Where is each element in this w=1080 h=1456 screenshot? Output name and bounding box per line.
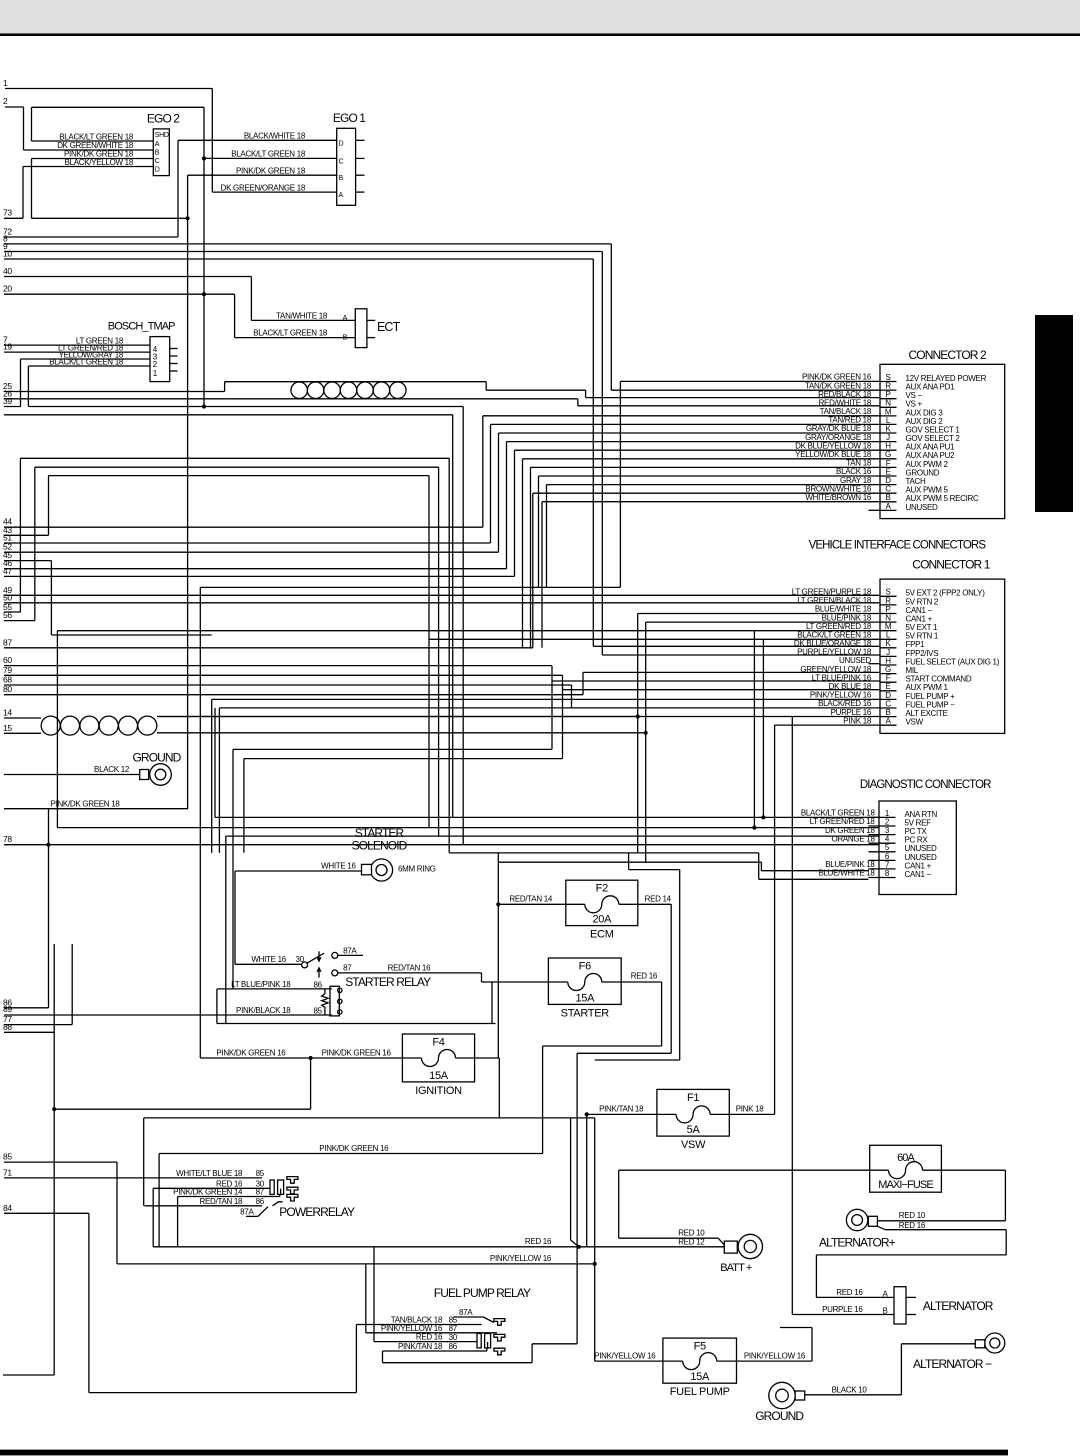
connector 2 row C AUX PWM 5 xyxy=(880,492,897,494)
wire 80 xyxy=(4,694,583,696)
connector 2 row S 12V RELAYED POWER xyxy=(880,381,897,383)
wire 44 xyxy=(4,526,483,528)
svg-text:D: D xyxy=(155,167,160,174)
EGO1 right stubs xyxy=(356,139,365,141)
svg-text:BATT +: BATT + xyxy=(720,1262,752,1274)
wire PINK/DK GREEN 16 to F4 xyxy=(200,1057,402,1059)
wire 50 / connector1 R row LT GREEN/BLACK 18 xyxy=(4,602,880,604)
wire 14 twisted pair top CAN xyxy=(4,717,41,719)
svg-text:RED 16: RED 16 xyxy=(416,1333,443,1342)
svg-text:TAN/WHITE 18: TAN/WHITE 18 xyxy=(276,311,328,320)
svg-text:A: A xyxy=(339,192,344,199)
svg-text:PINK/TAN 18: PINK/TAN 18 xyxy=(398,1342,443,1351)
wire R row TAN/DK GREEN 18 from wire 8 xyxy=(611,389,880,391)
TMAP right stubs xyxy=(170,348,178,350)
svg-text:PINK/DK GREEN 14: PINK/DK GREEN 14 xyxy=(173,1188,243,1197)
wire 7 LT GREEN 18 to TMAP 4 xyxy=(4,344,150,346)
svg-text:87A: 87A xyxy=(459,1308,473,1317)
svg-text:C: C xyxy=(339,159,344,166)
wire 43 xyxy=(4,534,49,536)
svg-text:73: 73 xyxy=(3,208,12,218)
svg-text:84: 84 xyxy=(3,1203,12,1213)
wire AUX ANA PU2 row G riser xyxy=(522,459,524,648)
connector 2 row G AUX ANA PU2 xyxy=(880,458,897,460)
starter relay enclosure return xyxy=(217,1023,496,1025)
svg-text:CAN1 −: CAN1 − xyxy=(905,870,932,879)
fuel relay 87A link xyxy=(483,1317,494,1323)
svg-text:IGNITION: IGNITION xyxy=(415,1085,462,1097)
svg-text:VEHICLE INTERFACE CONNECTORS: VEHICLE INTERFACE CONNECTORS xyxy=(809,540,987,552)
wire connector1 F row LT BLUE/PINK 16 start command xyxy=(552,680,880,682)
connector 1 box xyxy=(792,579,1005,733)
fuse F5 15A FUEL PUMP xyxy=(663,1338,737,1398)
wire 9 xyxy=(4,251,602,253)
wire 12V relayed power PINK/DK GREEN 16 xyxy=(620,380,880,382)
connector 1 row F START COMMAND xyxy=(880,681,897,683)
wire 89 PINK/BLACK 18 starter relay coil 85 xyxy=(4,1014,332,1016)
connector 2 row K GOV SELECT 1 xyxy=(880,432,897,434)
svg-text:RED 10: RED 10 xyxy=(678,1229,705,1238)
svg-text:88: 88 xyxy=(3,1022,12,1032)
wire TAN/WHITE 18 to ECT A xyxy=(251,319,355,321)
connector 1 row R 5V RTN 2 xyxy=(880,604,897,606)
svg-text:60A: 60A xyxy=(897,1152,915,1164)
wire 5V REF riser to diagnostic xyxy=(753,631,755,828)
svg-text:30: 30 xyxy=(449,1333,458,1342)
svg-text:VSW: VSW xyxy=(906,718,924,727)
svg-text:86: 86 xyxy=(256,1197,265,1206)
svg-text:RED 14: RED 14 xyxy=(645,895,672,904)
ring BATT+ xyxy=(724,1234,762,1258)
power relay 87A stub xyxy=(246,1215,258,1217)
svg-text:SOLENOID: SOLENOID xyxy=(352,839,408,853)
svg-text:PINK/DK GREEN 16: PINK/DK GREEN 16 xyxy=(322,1049,392,1058)
svg-text:DK GREEN/ORANGE 18: DK GREEN/ORANGE 18 xyxy=(221,183,306,192)
wire RED 16 power relay 30 xyxy=(153,1187,262,1189)
wire WHITE 16 to starter solenoid xyxy=(235,870,362,872)
wire 2 xyxy=(5,106,24,108)
svg-text:F6: F6 xyxy=(579,961,591,973)
wire PINK/DK GREEN 14 power relay 87 xyxy=(178,1196,262,1198)
svg-text:RED 16: RED 16 xyxy=(836,1288,863,1297)
svg-text:PINK/DK GREEN 18: PINK/DK GREEN 18 xyxy=(51,799,121,808)
svg-text:15: 15 xyxy=(3,723,12,733)
svg-text:LT BLUE/PINK 18: LT BLUE/PINK 18 xyxy=(231,980,291,989)
connector 2 row N VS + xyxy=(880,406,897,408)
svg-text:MAXI−FUSE: MAXI−FUSE xyxy=(878,1179,933,1191)
diagnostic row 1 ANA RTN xyxy=(868,816,895,818)
diagnostic connector box xyxy=(801,801,956,895)
svg-text:PINK/YELLOW 16: PINK/YELLOW 16 xyxy=(381,1324,443,1333)
svg-text:87: 87 xyxy=(256,1188,265,1197)
svg-text:BLACK 12: BLACK 12 xyxy=(94,765,130,774)
svg-text:POWERRELAY: POWERRELAY xyxy=(279,1205,355,1219)
wire EGO2 pin C PINK/DK GREEN 18 xyxy=(32,158,154,160)
svg-text:A: A xyxy=(343,313,348,322)
svg-text:F4: F4 xyxy=(432,1037,444,1049)
fuel pump relay contacts glyph xyxy=(471,1319,505,1355)
twisted pair circles CAN xyxy=(41,716,60,735)
wire RED 16 to BATT+ xyxy=(153,1246,724,1248)
starter relay coil xyxy=(330,986,339,1016)
svg-text:F2: F2 xyxy=(596,883,608,895)
connector 2 row B AUX PWM 5 RECIRC xyxy=(880,501,897,503)
wire GROUND row E riser xyxy=(538,476,540,587)
wire diag row2 LT GREEN/RED 18 5V REF xyxy=(57,827,879,829)
connector 2 box xyxy=(795,364,1005,518)
diagnostic row 6 UNUSED xyxy=(868,859,895,861)
svg-text:1: 1 xyxy=(3,78,8,88)
twisted pair circles EGO xyxy=(291,382,308,399)
svg-text:PINK/YELLOW 16: PINK/YELLOW 16 xyxy=(594,1351,656,1360)
wire run to diag via x449 xyxy=(20,457,449,459)
wire CAN1+ lower run xyxy=(498,861,761,863)
wire 87 xyxy=(4,647,533,649)
wire RED/TAN 14 to F2 xyxy=(498,903,566,905)
ring ALTERNATOR- xyxy=(975,1333,1005,1353)
connector 2 row F AUX PWM 2 xyxy=(880,466,897,468)
wire connector1 A row PINK 18 VSW xyxy=(775,724,880,726)
svg-text:RED 16: RED 16 xyxy=(899,1221,926,1230)
wire CAN1+ riser BLUE/PINK 18 xyxy=(645,622,647,862)
page top rule xyxy=(0,33,1080,36)
wire F2 feed elbow xyxy=(577,1052,671,1054)
svg-text:SHD: SHD xyxy=(155,132,169,139)
svg-text:RED/TAN 14: RED/TAN 14 xyxy=(509,895,552,904)
fuse F4 15A IGNITION xyxy=(402,1034,474,1097)
power relay contacts glyph xyxy=(262,1177,298,1206)
connector 2 row M AUX DIG 3 xyxy=(880,415,897,417)
wire 15 twisted pair bottom CAN xyxy=(4,732,41,734)
wire 25 twisted pair top xyxy=(4,391,225,393)
svg-text:5A: 5A xyxy=(687,1124,701,1136)
wire 45 xyxy=(4,560,51,562)
diagnostic row 3 PC TX xyxy=(868,834,895,836)
connector 1 row G MIL xyxy=(880,673,897,675)
wire F4 output xyxy=(475,1057,500,1059)
svg-text:78: 78 xyxy=(3,834,12,844)
svg-text:GROUND: GROUND xyxy=(755,1409,804,1423)
svg-text:D: D xyxy=(339,141,344,148)
connector 2 row J GOV SELECT 2 xyxy=(880,441,897,443)
svg-text:RED/TAN 18: RED/TAN 18 xyxy=(200,1197,243,1206)
connector 1 row M 5V EXT 1 xyxy=(880,630,897,632)
wire AUX ANA PU1 row H riser xyxy=(514,450,516,576)
wire 52 xyxy=(4,551,499,553)
connector 1 row K FPP1 xyxy=(880,647,897,649)
svg-text:BLACK/LT GREEN 18: BLACK/LT GREEN 18 xyxy=(49,357,124,366)
svg-text:87: 87 xyxy=(343,963,352,972)
svg-text:15A: 15A xyxy=(690,1371,710,1383)
wire run to diag via x438 xyxy=(35,466,439,468)
wire F4 to batt feed xyxy=(570,1118,572,1240)
svg-text:C: C xyxy=(155,158,160,165)
fuse F6 15A STARTER xyxy=(548,958,621,1019)
wire RED 16 alternator+ to A xyxy=(877,1226,885,1230)
svg-text:ECM: ECM xyxy=(590,929,614,941)
diagnostic row 5 UNUSED xyxy=(868,851,895,853)
connector1 H row stub xyxy=(868,663,880,665)
svg-text:80: 80 xyxy=(3,684,12,694)
wire AUX PWM5 row C riser xyxy=(532,493,534,648)
connector2 row A stub xyxy=(868,509,880,511)
svg-text:ECT: ECT xyxy=(377,320,401,334)
wire 40 xyxy=(4,276,251,278)
svg-text:A: A xyxy=(155,141,160,148)
svg-text:F1: F1 xyxy=(687,1092,699,1104)
wire 86 xyxy=(4,1007,49,1009)
svg-text:VSW: VSW xyxy=(681,1139,706,1151)
wire AUX PWM5 RECIRC row B riser xyxy=(541,502,543,648)
wire EGO1 pin C BLACK/LT GREEN 18 xyxy=(204,157,337,159)
svg-text:86: 86 xyxy=(449,1342,458,1351)
svg-text:15A: 15A xyxy=(429,1070,449,1082)
connector 2 row H AUX ANA PU1 xyxy=(880,449,897,451)
wire AUX DIG2 row L riser xyxy=(490,424,492,543)
diagnostic row 7 CAN1 + xyxy=(868,868,895,870)
svg-text:PINK/DK GREEN 16: PINK/DK GREEN 16 xyxy=(216,1049,286,1058)
svg-text:WHITE 16: WHITE 16 xyxy=(251,955,286,964)
wire RED 14 from F2 xyxy=(638,903,671,905)
wire RED 16 from F6 xyxy=(621,981,661,983)
wire 77 xyxy=(4,1024,72,1026)
wire PINK/DK GREEN 16 relayed feed xyxy=(159,1153,542,1155)
svg-text:DIAGNOSTIC CONNECTOR: DIAGNOSTIC CONNECTOR xyxy=(860,779,991,791)
wire GOV SELECT1 row K riser xyxy=(498,433,500,552)
svg-text:CONNECTOR 1: CONNECTOR 1 xyxy=(912,558,990,572)
svg-text:85: 85 xyxy=(3,1152,12,1162)
connector ECT xyxy=(355,309,367,348)
svg-text:PINK 18: PINK 18 xyxy=(736,1105,765,1114)
svg-text:71: 71 xyxy=(3,1167,12,1177)
svg-text:BLACK/WHITE 18: BLACK/WHITE 18 xyxy=(244,132,306,141)
svg-text:WHITE/BROWN 16: WHITE/BROWN 16 xyxy=(805,493,871,502)
wire EGO1 pin A DK GREEN/ORANGE 18 xyxy=(212,191,336,193)
svg-text:PINK/BLACK 18: PINK/BLACK 18 xyxy=(236,1006,291,1015)
svg-text:39: 39 xyxy=(3,396,12,406)
wire connector1 C row BLACK/RED 16 fuel pump - xyxy=(219,707,880,709)
wire maxi-fuse feed xyxy=(619,1169,870,1171)
connector 1 row E AUX PWM 1 xyxy=(880,690,897,692)
wire VSW riser xyxy=(586,1114,588,1246)
starter relay arrow down xyxy=(316,957,321,962)
svg-text:PINK/DK GREEN 18: PINK/DK GREEN 18 xyxy=(236,166,306,175)
svg-text:BLACK 10: BLACK 10 xyxy=(832,1385,868,1394)
svg-text:BLACK/LT GREEN 18: BLACK/LT GREEN 18 xyxy=(253,329,328,338)
svg-text:BOSCH_TMAP: BOSCH_TMAP xyxy=(108,321,175,333)
svg-text:85: 85 xyxy=(256,1169,265,1178)
connector 1 row N CAN1 + xyxy=(880,621,897,623)
connector 1 row S 5V EXT 2 (FPP2 ONLY) xyxy=(880,595,897,597)
svg-text:50: 50 xyxy=(3,592,12,602)
junction EGO1-C / bus xyxy=(202,156,206,160)
wire RED/TAN 18 power relay 86 xyxy=(144,1205,262,1207)
wire EGO1 pin D BLACK/WHITE 18 to wire 72 xyxy=(178,139,337,141)
starter relay arrow up xyxy=(316,967,321,972)
svg-text:FUEL SELECT (AUX DIG 1): FUEL SELECT (AUX DIG 1) xyxy=(906,657,1000,666)
wire RED 10 to BATT+ xyxy=(619,1237,719,1239)
svg-text:87A: 87A xyxy=(240,1207,254,1216)
svg-text:56: 56 xyxy=(3,610,12,620)
wire GOV SELECT2 row J riser xyxy=(506,442,508,569)
wire 43 riser run xyxy=(49,475,430,477)
wire RED/TAN 16 to F6 xyxy=(338,972,482,974)
wire CAN1- riser BLUE/WHITE 18 xyxy=(637,614,639,853)
wire connector1 M row LT GREEN/RED 18 xyxy=(57,630,880,632)
connector 2 row D TACH xyxy=(880,484,897,486)
svg-text:PURPLE 16: PURPLE 16 xyxy=(822,1305,863,1314)
wire 88 riser xyxy=(53,944,55,1375)
wire RED 16 to alternator A xyxy=(816,1296,894,1298)
svg-text:WHITE 16: WHITE 16 xyxy=(321,861,356,870)
connector 2 row R AUX ANA PD1 xyxy=(880,389,897,391)
starter relay arm xyxy=(307,953,325,963)
svg-text:68: 68 xyxy=(3,675,12,685)
svg-text:ORANGE 18: ORANGE 18 xyxy=(832,834,876,843)
connector ALTERNATOR xyxy=(894,1287,906,1324)
wire connector1 L row BLACK/LT GREEN 18 xyxy=(429,638,880,640)
diagnostic row 4 PC RX xyxy=(868,842,895,844)
connector 1 row B ALT EXCITE xyxy=(880,716,897,718)
svg-text:RED 16: RED 16 xyxy=(631,971,658,980)
wire 60 xyxy=(4,665,552,667)
connector EGO 1 xyxy=(337,128,356,205)
connector 1 row L 5V RTN 1 xyxy=(880,638,897,640)
wire 1 xyxy=(5,88,212,90)
wire 47 xyxy=(4,575,515,577)
svg-text:10: 10 xyxy=(3,249,12,259)
wire PINK/DK GREEN 18 stub xyxy=(4,808,188,810)
svg-text:86: 86 xyxy=(314,980,323,989)
wire maxi-fuse to alternator+ xyxy=(941,1169,1005,1171)
wire 26 twisted pair bottom xyxy=(4,398,578,400)
svg-text:BLACK/YELLOW 18: BLACK/YELLOW 18 xyxy=(65,158,134,167)
svg-text:ALTERNATOR: ALTERNATOR xyxy=(923,1299,994,1313)
wire 8 xyxy=(4,243,611,245)
wire 20 xyxy=(4,293,235,295)
svg-text:ALTERNATOR −: ALTERNATOR − xyxy=(913,1357,992,1371)
connector 2 row P VS − xyxy=(880,398,897,400)
wire AUX PWM2 row F riser xyxy=(530,467,532,647)
wire pink/dk green drop to wire 86 xyxy=(48,809,50,1008)
wire connector1 E row DK BLUE 18 AUX PWM 1 xyxy=(563,689,881,691)
wire sensor return run xyxy=(4,414,453,416)
wire 68 xyxy=(4,684,572,686)
svg-text:60: 60 xyxy=(3,655,12,665)
svg-text:STARTER RELAY: STARTER RELAY xyxy=(345,975,431,989)
wire connector1 B row PURPLE 16 alt excite xyxy=(157,716,792,718)
connector 2 row A UNUSED xyxy=(880,509,897,511)
wire PINK/YELLOW 16 to F5 xyxy=(595,1360,663,1362)
svg-text:20: 20 xyxy=(3,284,12,294)
connector 1 row P CAN1 − xyxy=(880,613,897,615)
wire PURPLE 16 to alternator B xyxy=(792,1314,894,1316)
svg-text:19: 19 xyxy=(3,342,12,352)
wire PINK/YELLOW 16 from F5 xyxy=(737,1360,813,1362)
wire 84 xyxy=(4,1212,89,1214)
wire diag row3 DK GREEN 18 PC TX xyxy=(226,835,879,837)
wire ANA RTN riser to diagnostic xyxy=(762,639,764,817)
connector 1 row A VSW xyxy=(880,724,897,726)
starter relay contact 87 xyxy=(332,970,338,976)
starter relay contact 30 xyxy=(302,962,308,968)
page top gray band xyxy=(0,0,1080,33)
wire 56 xyxy=(4,620,35,622)
wire connector1 J row PURPLE/YELLOW 18 from wire 9 xyxy=(602,654,880,656)
wire LT BLUE/PINK 18 to starter relay coil 86 xyxy=(217,988,332,990)
svg-text:87A: 87A xyxy=(343,946,357,955)
svg-text:STARTER: STARTER xyxy=(561,1007,610,1019)
wire TACH row D riser xyxy=(546,485,548,588)
svg-text:FUEL PUMP: FUEL PUMP xyxy=(670,1386,730,1398)
wire 51 xyxy=(4,542,491,544)
connector 1 row C FUEL PUMP − xyxy=(880,707,897,709)
junction CAN1- tap xyxy=(636,714,640,718)
svg-text:GROUND: GROUND xyxy=(133,751,182,765)
svg-text:RED 16: RED 16 xyxy=(525,1237,552,1246)
svg-text:CONNECTOR 2: CONNECTOR 2 xyxy=(909,348,987,362)
svg-text:87: 87 xyxy=(449,1324,458,1333)
right edge black tab xyxy=(1035,315,1073,512)
svg-text:2: 2 xyxy=(3,96,8,106)
svg-text:B: B xyxy=(343,333,348,342)
wire 49 / connector1 S row LT GREEN/PURPLE 18 xyxy=(4,594,880,596)
fuse F1 5A VSW xyxy=(657,1089,729,1151)
wire fuel relay 86 feed from F6 xyxy=(383,1362,533,1364)
connector EGO 2 xyxy=(153,129,169,176)
wire power relay branch xyxy=(310,1058,312,1109)
wire switched 12V riser xyxy=(497,853,499,1058)
connector 1 row J FPP2/IVS xyxy=(880,655,897,657)
connector 1 row H FUEL SELECT (AUX DIG 1) xyxy=(880,664,897,666)
wire 19 LT GREEN/RED 18 to TMAP 3 xyxy=(4,351,150,353)
junction EGO2-C / EGO1-B riser xyxy=(186,216,190,220)
connector 2 row E GROUND xyxy=(880,475,897,477)
svg-text:20A: 20A xyxy=(592,914,612,926)
junction CAN1+ tap xyxy=(644,731,648,735)
connector 1 row D FUEL PUMP + xyxy=(880,698,897,700)
svg-text:PINK/TAN 18: PINK/TAN 18 xyxy=(599,1105,644,1114)
wire PINK/YELLOW 16 fuel relay 87 xyxy=(366,1332,497,1334)
svg-text:14: 14 xyxy=(3,708,12,718)
ring ground left xyxy=(140,764,172,786)
wire RED 10 alternator+ xyxy=(877,1220,1005,1222)
wire PINK/TAN 18 to F1 xyxy=(587,1113,657,1115)
wire starter relay 30 WHITE 16 xyxy=(235,963,301,965)
wire diag row1 BLACK/LT GREEN 18 ANA RTN xyxy=(215,816,879,818)
wire TAN/BLACK 18 fuel relay 85 xyxy=(356,1324,481,1326)
svg-text:79: 79 xyxy=(3,665,12,675)
diagnostic row 2 5V REF xyxy=(868,825,895,827)
wire alternator- to ground xyxy=(901,1343,975,1345)
wire PINK/TAN 18 fuel relay 86 xyxy=(383,1350,472,1352)
ring ground bottom xyxy=(769,1382,805,1408)
starter relay contact 87A xyxy=(332,952,338,958)
svg-text:B: B xyxy=(883,1307,888,1316)
wire 10 xyxy=(4,258,593,260)
svg-text:F5: F5 xyxy=(694,1341,706,1353)
wire 46 xyxy=(4,568,507,570)
svg-text:EGO 1: EGO 1 xyxy=(333,111,366,125)
wire PINK/YELLOW 16 run xyxy=(117,1263,595,1265)
wire 55 xyxy=(4,611,21,613)
wire BLACK 12 to ground xyxy=(4,774,140,776)
wire power relay 87 drop xyxy=(177,1197,179,1247)
fuel pump relay 87A stub xyxy=(453,1316,483,1318)
connector 2 row L AUX DIG 2 xyxy=(880,423,897,425)
wire YELLOW/GRAY 18 TMAP 2 xyxy=(21,358,151,360)
wire 79 xyxy=(4,674,563,676)
